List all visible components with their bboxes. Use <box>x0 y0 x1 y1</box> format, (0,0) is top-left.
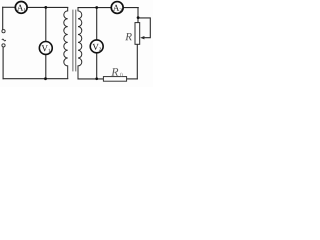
ammeter A1 <box>15 2 27 14</box>
wire: right top horizontal (coil to A2) <box>78 7 111 9</box>
transformer core line right <box>75 10 77 72</box>
voltmeter V1 <box>39 42 52 55</box>
transformer secondary coil <box>78 8 82 79</box>
wire: V1 branch lower <box>45 55 47 79</box>
terminal (bottom input) <box>2 44 5 47</box>
AC source tilde <box>2 39 6 41</box>
wire: A2 to rheostat corner <box>123 7 138 9</box>
wire: left top horizontal (source to A1) <box>3 6 15 8</box>
wire: V2 branch upper <box>96 8 98 40</box>
label R <box>125 33 132 40</box>
node: junction bottom of V2 <box>95 77 98 80</box>
resistor R (rheostat body) <box>135 23 140 45</box>
transformer primary coil <box>64 7 68 78</box>
node: junction bottom of V1 <box>44 77 47 80</box>
rheostat slider arrowhead <box>140 36 144 39</box>
wire: left bottom horizontal <box>3 78 68 80</box>
background <box>0 0 153 87</box>
node: junction rheostat feed <box>137 16 140 19</box>
wire: left vertical from bottom terminal down <box>2 47 4 79</box>
transformer core line left <box>72 10 74 72</box>
ammeter A2 <box>111 2 123 14</box>
terminal (top input) <box>2 30 5 33</box>
wire: left vertical down to top terminal <box>2 7 4 29</box>
label R0 <box>111 68 118 76</box>
wire: right bottom horizontal (coil to R0) <box>78 78 103 80</box>
wire: V2 branch lower <box>96 53 98 79</box>
voltmeter V2 <box>90 40 103 53</box>
resistor R0 <box>103 77 126 82</box>
wire: rheostat bottom vertical <box>136 44 138 79</box>
node: junction top of V1 <box>44 6 47 9</box>
wire: rheostat top feed vertical <box>137 8 139 23</box>
wire: V1 branch upper <box>45 7 47 41</box>
wire: R0 to right corner <box>127 78 138 80</box>
wire: slider branch (right loop to arrow) <box>138 18 150 38</box>
node: junction top of V2 <box>95 6 98 9</box>
wire: A1 to transformer primary top <box>28 6 68 8</box>
